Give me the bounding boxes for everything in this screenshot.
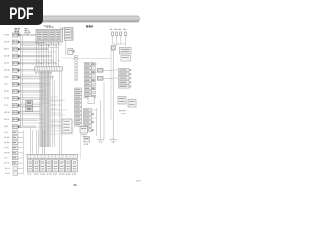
svg-text:PDF: PDF (9, 5, 33, 23)
